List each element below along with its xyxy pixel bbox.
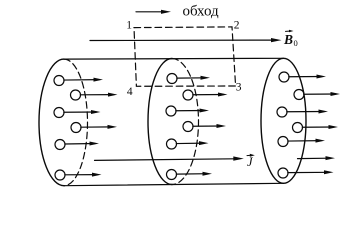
moment R3 [277,107,328,117]
moment R5 [278,137,325,147]
left cap back (dashed) [64,59,88,186]
node 3 label [236,82,242,94]
svg-text:2: 2 [234,20,240,32]
middle section front [148,59,172,185]
moment L3 [54,108,101,118]
moment R7 [278,168,334,178]
moment L6 [55,170,102,180]
moment L2 [71,90,118,100]
svg-text:B: B [283,32,293,47]
обход direction arrow [136,10,171,14]
cylinder top edge [64,57,284,60]
moment M5 [167,139,209,149]
cylinder bottom edge [64,183,284,185]
moment R2 [294,90,340,100]
node 2 label [234,20,240,32]
svg-text:3: 3 [236,82,242,94]
svg-text:0: 0 [294,38,298,48]
moment M4 [183,122,226,132]
moment M2 [183,90,228,100]
svg-text:4: 4 [127,86,133,98]
J magnetization arrow [95,156,244,160]
moment M3 [166,106,209,116]
moment M6 [167,170,213,180]
svg-text:1: 1 [126,19,132,31]
J label [247,154,255,169]
node 1 label [126,19,132,31]
moment L4 [71,123,117,133]
middle section back (dashed) [172,59,199,185]
moment M1 [167,74,210,84]
svg-text:обход: обход [183,4,220,20]
circulation loop 1-2-3-4 (dashed) [134,27,236,86]
right cap [261,58,306,183]
magnetization arrow R6 (no circle) [298,156,336,160]
left cap front [39,59,64,186]
moment R1 [279,72,326,82]
moment L5 [55,140,99,150]
node 4 label [127,86,133,98]
B0 field arrow [90,38,282,42]
moment L1 [54,76,103,86]
обход label [183,4,220,20]
moment R4 [293,123,339,133]
B0 label [283,30,298,48]
